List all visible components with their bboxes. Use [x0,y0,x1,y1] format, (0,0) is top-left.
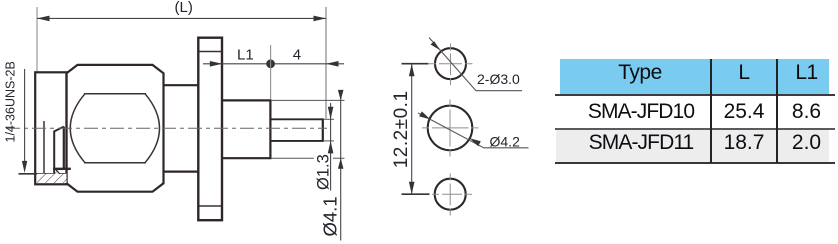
center pin top edge [270,118,322,120]
thread lead-in chamfer diagonal [55,169,60,174]
dimension (L) extension line left [36,7,38,72]
cell 18.7 [711,127,777,159]
header cell Type [565,57,715,88]
svg-text:2-Ø3.0: 2-Ø3.0 [477,71,520,87]
bottom mounting hole circle [435,179,466,210]
center hole centerlines [422,127,479,129]
arrowhead d4.1 bottom [338,158,344,169]
arrowhead 12.2 bottom [409,182,415,195]
table bottom rule [555,162,835,164]
cell 8.6 [781,96,832,128]
cell SMA-JFD10 [566,96,716,128]
header cell L1 [781,57,832,88]
arrowhead (L) left [37,16,50,22]
dimension (L) extension line right (shared with dim 4) [325,7,327,119]
inner contact left edge [53,131,55,174]
cell 2.0 [781,127,832,159]
arrowhead L1 at flange face [210,61,223,67]
leader arrowhead d4.2 upper [419,111,430,119]
flange view: dimension 12.2 top extension line [402,63,429,65]
dimension line (L) [37,17,326,19]
pin bottom extension line [324,140,334,142]
flange top chamfer line [200,51,222,53]
thread minor line [19,173,68,175]
mid cylinder bottom edge [164,171,199,173]
svg-text:1/4-36UNS-2B: 1/4-36UNS-2B [4,61,18,142]
arrowhead 4 at pin end extension [326,61,339,67]
svg-text:4: 4 [293,47,301,64]
top mounting hole circle [435,48,466,79]
boss right edge [269,99,271,159]
svg-text:L1: L1 [237,47,254,64]
leader arrowhead d4.2 lower [470,138,481,146]
boss cylinder top edge [222,99,270,101]
table column line 1 [710,59,712,163]
arrowhead d4.1 top [338,90,344,101]
svg-text:Ø4.2: Ø4.2 [490,133,521,149]
svg-text:12.2±0.1: 12.2±0.1 [391,90,412,168]
inner contact right edge [63,127,65,169]
inner bore step line [43,121,45,174]
svg-text:Ø4.1: Ø4.1 [320,196,341,236]
flange rectangle [198,38,222,221]
dimension line d4.1 [340,91,342,241]
extension line at boss edge [270,45,272,100]
table row separator rule [555,128,835,130]
header cell L [711,57,777,88]
dimension line d1.3 [330,103,332,191]
thread lead hatch upper part [55,170,59,174]
table header fill [560,59,829,95]
thread section hatch [37,174,67,183]
junction dot [266,59,275,68]
leader d4.2 [418,113,528,148]
center hole circle [428,106,473,151]
inner contact top slant [54,127,64,132]
pin end face [322,118,324,141]
flange bottom chamfer line [200,205,222,207]
boss cylinder bottom edge [222,157,270,159]
hex nut silhouette [67,65,164,192]
hex lower flat line [84,162,146,164]
arrowhead d1.3 bottom [328,141,334,154]
thread label leader line [24,69,26,170]
svg-text:(L): (L) [175,0,193,16]
hex left corner arc [70,94,85,163]
flange view: dimension 12.2 bottom extension line [402,193,430,195]
centerline of connector axis [6,127,327,129]
arrowhead d1.3 top [328,107,334,120]
coupling nut body (left cylinder) [35,72,66,184]
table header bottom rule [555,94,835,96]
center pin bottom edge [270,140,322,142]
dimension line 12.2 [411,64,413,195]
thread label leader arrowhead [22,161,27,173]
cell 25.4 [711,96,777,128]
table column line 2 [776,59,778,163]
leader arrowhead 2-d3.0 [431,41,441,50]
bottom circle centerlines [432,193,472,195]
table row 2 fill [556,130,829,163]
pin top extension line [324,118,334,120]
leader 2-d3.0 [429,38,522,91]
mid cylinder top edge [164,84,199,86]
boss bottom extension line [272,157,345,159]
svg-text:Ø1.3: Ø1.3 [315,154,333,190]
top circle centerlines [429,63,473,65]
arrowhead (L) right [314,16,327,22]
hex upper flat line [84,93,146,95]
boss top extension line [272,99,345,101]
dimension line L1 / 4 [203,63,344,65]
cell SMA-JFD11 [566,127,716,159]
inner contact bottom thick edge [53,168,71,170]
arrowhead 12.2 top [409,64,415,76]
hex right corner arc [145,94,160,163]
